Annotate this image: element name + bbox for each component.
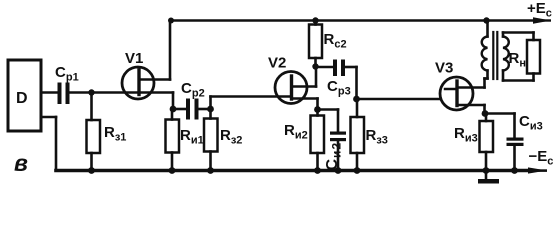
svg-text:V1: V1 <box>125 50 143 67</box>
svg-text:V3: V3 <box>435 60 453 77</box>
svg-text:V2: V2 <box>268 55 286 72</box>
svg-text:D: D <box>16 90 28 107</box>
svg-text:в: в <box>14 150 28 176</box>
